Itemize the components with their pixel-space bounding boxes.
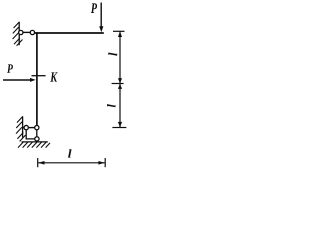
top member (beam) (34, 32, 104, 34)
bottom wall line (22, 117, 24, 138)
top wall hatching (13, 22, 23, 46)
dim arrowheads bottom (38, 161, 44, 165)
ground line (22, 141, 48, 143)
support block edges (26, 128, 37, 139)
mid tick (112, 83, 124, 85)
label l lower (rotated) (107, 104, 115, 107)
hinge circle A (wall pin, top) (19, 30, 23, 34)
column (vertical member) (36, 32, 38, 127)
top tick (113, 30, 125, 32)
label l bottom (68, 149, 71, 157)
load P top arrow (99, 3, 103, 33)
right tick (104, 158, 106, 167)
top wall line (18, 22, 20, 45)
bottom wall hatching (16, 116, 26, 141)
hinge circle C3 (ground pin) (35, 137, 39, 141)
hinge circle C2 (column hinge, bottom) (35, 125, 39, 129)
label P top (91, 3, 97, 13)
hinge circle C1 (wall pin, bottom) (24, 125, 28, 129)
bottom tick (112, 127, 126, 129)
dimension line bottom: horizontal (38, 158, 106, 167)
ground hatching (18, 142, 50, 148)
left tick (37, 158, 39, 167)
node K tick (32, 75, 46, 77)
dimension line right: vertical (112, 31, 127, 127)
load P left arrow (3, 78, 36, 82)
wire bottom link wall to block (23, 127, 37, 129)
label K (50, 72, 57, 81)
wire top link A-B (21, 31, 32, 33)
dim arrowheads right (118, 32, 122, 37)
hinge circle B (frame hinge, top) (30, 30, 34, 34)
label l upper (rotated) (108, 52, 117, 55)
label P left (7, 64, 13, 72)
